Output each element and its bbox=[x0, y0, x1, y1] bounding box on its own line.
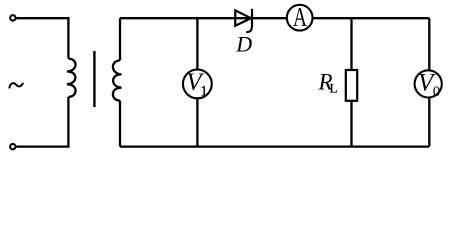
diode D cathode bar bbox=[246, 9, 252, 32]
wire RL branch bbox=[350, 18, 352, 146]
wire secondary left bottom bbox=[119, 101, 121, 147]
terminal bottom-left bbox=[10, 144, 15, 149]
wire secondary left top bbox=[119, 18, 121, 60]
diode D triangle bbox=[235, 10, 251, 25]
wire primary top bbox=[16, 18, 69, 58]
voltmeter V1 circle bbox=[183, 70, 212, 99]
wire bottom rail bbox=[120, 145, 429, 147]
svg-text:L: L bbox=[330, 80, 338, 95]
primary winding bbox=[67, 59, 76, 97]
wire top rail bbox=[120, 17, 429, 19]
resistor RL body bbox=[346, 70, 357, 101]
wire primary bottom bbox=[16, 97, 69, 147]
svg-text:0: 0 bbox=[433, 84, 441, 100]
secondary winding bbox=[113, 60, 122, 100]
voltmeter V0 circle bbox=[415, 70, 442, 97]
wire V1 branch bbox=[196, 18, 198, 146]
AC source symbol ~ bbox=[9, 83, 22, 87]
wire V0 branch bbox=[428, 18, 430, 146]
svg-text:D: D bbox=[235, 31, 252, 56]
ammeter A circle bbox=[287, 5, 313, 31]
terminal top-left bbox=[10, 15, 15, 20]
svg-text:A: A bbox=[293, 2, 307, 32]
transformer core bbox=[93, 51, 95, 107]
svg-text:1: 1 bbox=[200, 84, 208, 100]
